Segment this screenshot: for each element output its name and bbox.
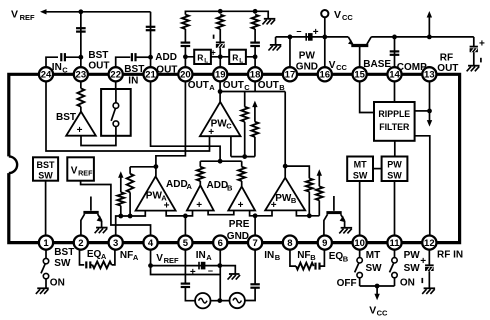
- svg-text:BST: BST: [124, 64, 144, 75]
- svg-text:10: 10: [354, 238, 365, 249]
- svg-text:R: R: [232, 52, 238, 62]
- svg-text:SW: SW: [404, 263, 421, 274]
- svg-text:B: B: [343, 254, 349, 263]
- svg-text:REF: REF: [78, 168, 93, 177]
- svg-text:V: V: [11, 9, 18, 21]
- svg-text:SW: SW: [38, 171, 53, 181]
- svg-text:V: V: [334, 9, 341, 21]
- svg-text:BST: BST: [88, 50, 108, 61]
- svg-text:GND: GND: [296, 62, 318, 73]
- svg-text:BST: BST: [37, 160, 56, 170]
- svg-text:12: 12: [424, 238, 435, 249]
- svg-text:C: C: [244, 83, 250, 92]
- svg-text:SW: SW: [387, 170, 402, 180]
- svg-text:+: +: [271, 200, 277, 211]
- svg-text:EQ: EQ: [87, 249, 102, 260]
- svg-text:23: 23: [76, 70, 87, 81]
- svg-text:SW: SW: [366, 263, 383, 274]
- svg-text:1: 1: [43, 238, 49, 249]
- svg-text:A: A: [187, 182, 193, 191]
- svg-text:V: V: [71, 165, 78, 176]
- svg-text:BST: BST: [54, 247, 74, 258]
- svg-text:C: C: [226, 122, 232, 131]
- svg-text:OUT: OUT: [437, 63, 458, 74]
- svg-text:L: L: [239, 57, 243, 64]
- svg-text:REF: REF: [20, 13, 35, 22]
- svg-text:FILTER: FILTER: [379, 122, 410, 132]
- svg-text:ON: ON: [400, 278, 415, 289]
- svg-text:+: +: [164, 201, 170, 212]
- svg-text:PW: PW: [299, 51, 316, 62]
- svg-text:B: B: [227, 183, 233, 192]
- svg-text:OUT: OUT: [188, 80, 209, 91]
- svg-text:7: 7: [252, 238, 257, 249]
- svg-text:L: L: [204, 57, 208, 64]
- svg-text:CC: CC: [377, 309, 388, 318]
- svg-text:GND: GND: [227, 231, 249, 242]
- svg-text:22: 22: [110, 70, 121, 81]
- svg-text:ADD: ADD: [166, 179, 188, 190]
- svg-text:B: B: [291, 196, 297, 205]
- svg-text:A: A: [133, 253, 139, 262]
- svg-text:+: +: [208, 127, 214, 138]
- svg-text:ADD: ADD: [155, 52, 177, 63]
- svg-text:CC: CC: [336, 63, 347, 72]
- svg-text:15: 15: [354, 70, 365, 81]
- svg-text:+: +: [479, 38, 485, 49]
- svg-text:NF: NF: [297, 250, 310, 261]
- svg-text:2: 2: [78, 238, 83, 249]
- svg-text:MT: MT: [366, 250, 380, 261]
- svg-text:5: 5: [183, 238, 189, 249]
- svg-text:C: C: [62, 65, 68, 74]
- svg-text:B: B: [310, 253, 316, 262]
- svg-text:−: −: [296, 26, 301, 36]
- svg-text:+: +: [77, 125, 83, 136]
- svg-text:11: 11: [389, 238, 400, 249]
- svg-text:OFF: OFF: [337, 278, 357, 289]
- svg-text:COMP: COMP: [397, 62, 427, 73]
- svg-text:21: 21: [145, 70, 156, 81]
- svg-text:OUT: OUT: [258, 80, 279, 91]
- svg-text:RF IN: RF IN: [437, 249, 463, 260]
- svg-text:+: +: [238, 200, 244, 211]
- svg-text:NF: NF: [120, 250, 133, 261]
- svg-text:+: +: [196, 200, 202, 211]
- svg-text:8: 8: [287, 238, 292, 249]
- svg-text:IN: IN: [196, 250, 206, 261]
- svg-text:B: B: [275, 253, 281, 262]
- svg-text:OUT: OUT: [223, 80, 244, 91]
- svg-text:IN: IN: [264, 250, 274, 261]
- svg-text:ON: ON: [50, 277, 65, 288]
- svg-text:RF: RF: [440, 53, 453, 64]
- svg-text:SW: SW: [54, 258, 71, 269]
- svg-text:BASE: BASE: [363, 59, 391, 70]
- svg-text:V: V: [156, 253, 163, 264]
- svg-text:+: +: [211, 47, 216, 57]
- svg-text:V: V: [369, 305, 376, 317]
- svg-text:A: A: [101, 252, 107, 261]
- svg-text:IN: IN: [128, 75, 138, 86]
- svg-text:SW: SW: [353, 170, 368, 180]
- svg-text:R: R: [197, 52, 203, 62]
- svg-text:RIPPLE: RIPPLE: [378, 109, 410, 119]
- svg-text:CC: CC: [342, 13, 353, 22]
- svg-text:IN: IN: [52, 62, 62, 73]
- svg-text:PRE: PRE: [229, 219, 250, 230]
- svg-text:B: B: [279, 83, 285, 92]
- svg-text:A: A: [209, 83, 215, 92]
- svg-text:OUT: OUT: [156, 65, 177, 76]
- svg-text:REF: REF: [164, 256, 179, 265]
- svg-text:EQ: EQ: [329, 251, 344, 262]
- svg-text:PW: PW: [387, 160, 402, 170]
- svg-text:4: 4: [148, 238, 154, 249]
- svg-text:17: 17: [285, 70, 296, 81]
- svg-text:PW: PW: [275, 193, 292, 204]
- svg-text:PW: PW: [404, 250, 421, 261]
- svg-text:+: +: [190, 267, 196, 278]
- svg-text:PW: PW: [146, 190, 163, 201]
- svg-text:24: 24: [41, 70, 52, 81]
- svg-text:9: 9: [322, 238, 327, 249]
- svg-text:OUT: OUT: [88, 61, 109, 72]
- svg-text:ADD: ADD: [207, 180, 229, 191]
- svg-text:BST: BST: [56, 112, 76, 123]
- svg-text:6: 6: [218, 238, 223, 249]
- svg-text:A: A: [206, 253, 212, 262]
- svg-text:−: −: [208, 266, 213, 276]
- svg-text:16: 16: [320, 70, 331, 81]
- svg-text:MT: MT: [354, 160, 367, 170]
- svg-text:3: 3: [113, 238, 118, 249]
- svg-text:+: +: [313, 27, 319, 38]
- svg-text:V: V: [329, 60, 336, 71]
- svg-text:+: +: [420, 256, 426, 267]
